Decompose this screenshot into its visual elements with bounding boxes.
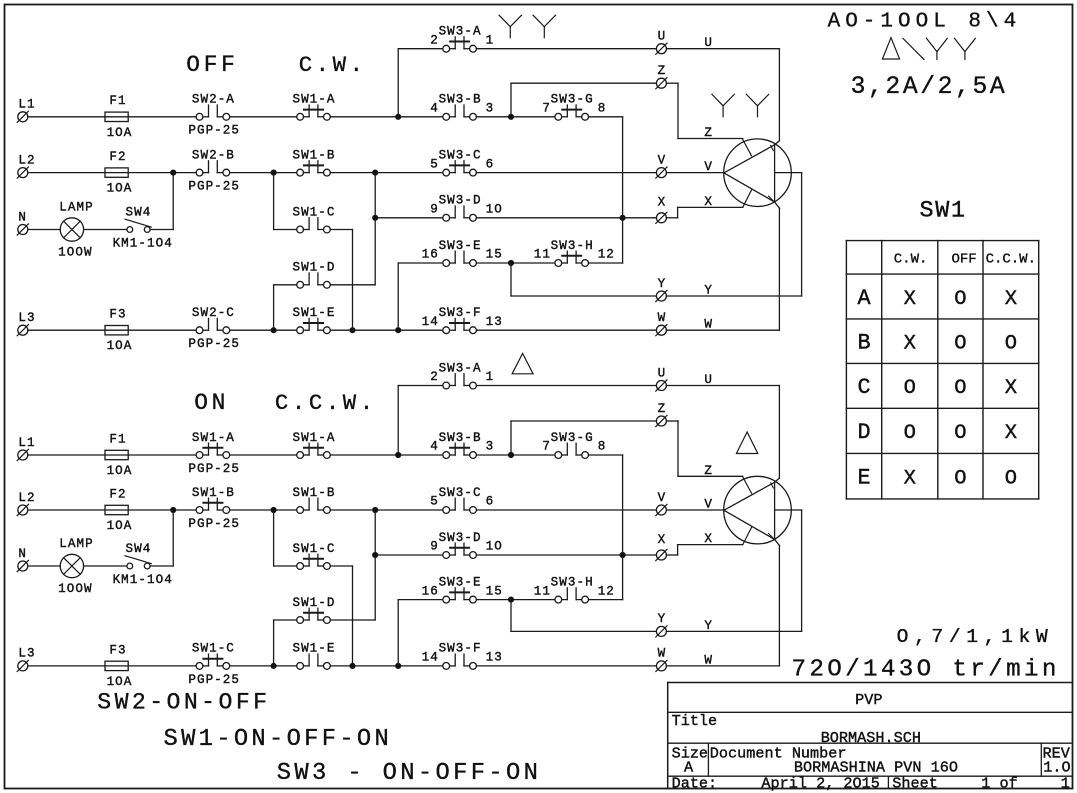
svg-text:Title: Title — [672, 712, 718, 730]
svg-text:SW1-ON-OFF-ON: SW1-ON-OFF-ON — [164, 726, 393, 753]
svg-text:PGP-25: PGP-25 — [188, 180, 240, 194]
svg-text:SW1: SW1 — [919, 198, 966, 224]
svg-text:15: 15 — [486, 248, 503, 262]
svg-text:SW1-B: SW1-B — [292, 148, 335, 162]
svg-text:X: X — [1005, 377, 1017, 400]
svg-text:V: V — [658, 153, 667, 167]
svg-text:F2: F2 — [109, 487, 126, 501]
svg-text:C.C.W.: C.C.W. — [275, 390, 377, 416]
svg-text:O: O — [954, 288, 966, 311]
svg-text:C.W.: C.W. — [299, 52, 367, 78]
svg-text:Date:: Date: — [672, 774, 718, 792]
svg-text:L1: L1 — [18, 436, 35, 450]
svg-text:F1: F1 — [109, 432, 126, 446]
svg-text:Y: Y — [658, 612, 667, 626]
svg-text:SW3-C: SW3-C — [439, 148, 482, 162]
svg-text:14: 14 — [422, 651, 439, 665]
svg-text:13: 13 — [486, 651, 503, 665]
svg-text:SW3 - ON-OFF-ON: SW3 - ON-OFF-ON — [277, 760, 541, 787]
svg-text:OFF: OFF — [186, 52, 238, 78]
svg-text:X: X — [658, 533, 667, 547]
svg-text:Z: Z — [658, 402, 667, 416]
svg-text:6: 6 — [486, 157, 495, 171]
svg-text:L2: L2 — [18, 153, 35, 167]
svg-text:L3: L3 — [18, 647, 35, 661]
svg-text:3,2A/2,5A: 3,2A/2,5A — [851, 73, 1008, 101]
svg-text:SW1-A: SW1-A — [292, 431, 335, 445]
svg-text:F2: F2 — [109, 150, 126, 164]
svg-text:72O/143O tr/min: 72O/143O tr/min — [792, 657, 1060, 684]
svg-text:SW2-A: SW2-A — [192, 93, 235, 107]
svg-text:SW4: SW4 — [125, 205, 151, 219]
svg-text:LAMP: LAMP — [59, 200, 93, 214]
svg-text:A: A — [857, 286, 871, 311]
svg-text:PGP-25: PGP-25 — [188, 124, 240, 138]
svg-text:PGP-25: PGP-25 — [188, 517, 240, 531]
svg-text:U: U — [658, 30, 667, 44]
svg-text:SW1-A: SW1-A — [292, 93, 335, 107]
svg-text:PGP-25: PGP-25 — [188, 673, 240, 687]
svg-text:SW1-B: SW1-B — [292, 486, 335, 500]
svg-text:F3: F3 — [109, 643, 126, 657]
svg-text:X: X — [1005, 288, 1017, 311]
svg-text:W: W — [658, 311, 667, 325]
svg-text:3: 3 — [486, 440, 495, 454]
svg-text:1OOW: 1OOW — [58, 245, 92, 259]
svg-text:11: 11 — [534, 584, 551, 598]
svg-text:SW3-C: SW3-C — [439, 486, 482, 500]
svg-text:SW2-ON-OFF: SW2-ON-OFF — [97, 689, 270, 715]
svg-text:8: 8 — [598, 440, 607, 454]
svg-text:F1: F1 — [109, 94, 126, 108]
svg-text:8: 8 — [598, 102, 607, 116]
svg-text:L2: L2 — [18, 491, 35, 505]
svg-text:5: 5 — [430, 157, 439, 171]
svg-text:KM1-1O4: KM1-1O4 — [113, 236, 173, 250]
svg-text:O: O — [954, 377, 966, 400]
svg-text:KM1-1O4: KM1-1O4 — [113, 573, 173, 587]
svg-text:3: 3 — [486, 102, 495, 116]
svg-text:SW2-B: SW2-B — [192, 148, 235, 162]
svg-text:U: U — [658, 366, 667, 380]
svg-text:O: O — [904, 377, 916, 400]
svg-text:1OA: 1OA — [107, 182, 133, 196]
svg-text:X: X — [1005, 422, 1017, 445]
svg-text:SW3-B: SW3-B — [439, 431, 482, 445]
svg-text:Y: Y — [658, 277, 667, 291]
svg-text:11: 11 — [534, 248, 551, 262]
svg-text:O: O — [1005, 468, 1017, 491]
svg-text:SW3-B: SW3-B — [439, 93, 482, 107]
svg-text:SW3-D: SW3-D — [439, 531, 482, 545]
svg-text:SW3-D: SW3-D — [439, 194, 482, 208]
svg-text:O,7/1,1kW: O,7/1,1kW — [897, 626, 1054, 648]
svg-text:E: E — [857, 466, 870, 491]
svg-text:SW3-A: SW3-A — [439, 25, 482, 39]
svg-text:D: D — [857, 420, 870, 445]
svg-text:1: 1 — [486, 33, 495, 47]
svg-text:X: X — [904, 333, 916, 356]
svg-text:Z: Z — [658, 64, 667, 78]
svg-text:V: V — [658, 491, 667, 505]
svg-text:O: O — [954, 422, 966, 445]
svg-text:14: 14 — [422, 315, 439, 329]
svg-text:L3: L3 — [18, 311, 35, 325]
svg-text:Sheet: Sheet — [892, 774, 938, 792]
svg-text:PGP-25: PGP-25 — [188, 462, 240, 476]
svg-text:1OA: 1OA — [107, 519, 133, 533]
svg-text:SW4: SW4 — [125, 542, 151, 556]
svg-text:SW1-C: SW1-C — [192, 642, 235, 656]
svg-text:SW2-C: SW2-C — [192, 306, 235, 320]
svg-text:N: N — [18, 547, 27, 561]
svg-text:C: C — [857, 375, 870, 400]
svg-text:OFF: OFF — [951, 251, 976, 267]
svg-text:1O: 1O — [486, 203, 503, 217]
svg-text:April 2, 2O15: April 2, 2O15 — [761, 774, 879, 792]
svg-text:15: 15 — [486, 584, 503, 598]
svg-text:1: 1 — [486, 370, 495, 384]
svg-text:L1: L1 — [18, 98, 35, 112]
svg-text:LAMP: LAMP — [59, 537, 93, 551]
svg-text:SW1-E: SW1-E — [292, 642, 335, 656]
svg-text:1OA: 1OA — [107, 675, 133, 689]
svg-text:N: N — [18, 210, 27, 224]
svg-text:SW1-C: SW1-C — [292, 205, 335, 219]
svg-text:5: 5 — [430, 495, 439, 509]
svg-text:SW3-G: SW3-G — [551, 93, 594, 107]
svg-text:1OOW: 1OOW — [58, 582, 92, 596]
svg-text:SW1-D: SW1-D — [292, 261, 335, 275]
svg-text:X: X — [658, 196, 667, 210]
svg-text:1OA: 1OA — [107, 339, 133, 353]
svg-text:2: 2 — [430, 370, 439, 384]
svg-text:SW1-B: SW1-B — [192, 486, 235, 500]
svg-text:1OA: 1OA — [107, 464, 133, 478]
svg-text:SW1-D: SW1-D — [292, 596, 335, 610]
svg-text:SW3-E: SW3-E — [439, 575, 482, 589]
svg-text:SW3-F: SW3-F — [439, 642, 482, 656]
svg-text:SW3-E: SW3-E — [439, 239, 482, 253]
svg-text:AO-1OOL 8\4: AO-1OOL 8\4 — [828, 10, 1022, 33]
svg-text:2: 2 — [430, 33, 439, 47]
svg-text:SW3-A: SW3-A — [439, 361, 482, 375]
svg-text:16: 16 — [422, 248, 439, 262]
svg-text:7: 7 — [542, 440, 551, 454]
svg-text:4: 4 — [430, 440, 439, 454]
svg-text:6: 6 — [486, 495, 495, 509]
svg-text:SW3-H: SW3-H — [551, 575, 594, 589]
svg-text:SW3-H: SW3-H — [551, 239, 594, 253]
svg-text:4: 4 — [430, 102, 439, 116]
svg-text:1 of: 1 of — [981, 774, 1017, 792]
svg-text:SW3-G: SW3-G — [551, 431, 594, 445]
svg-text:SW3-F: SW3-F — [439, 306, 482, 320]
svg-text:C.W.: C.W. — [894, 251, 928, 267]
svg-text:O: O — [954, 333, 966, 356]
svg-text:O: O — [904, 422, 916, 445]
svg-text:1: 1 — [1061, 774, 1070, 792]
svg-text:X: X — [904, 468, 916, 491]
svg-text:W: W — [658, 647, 667, 661]
svg-text:7: 7 — [542, 102, 551, 116]
svg-text:ON: ON — [194, 390, 229, 416]
svg-text:9: 9 — [430, 540, 439, 554]
svg-text:F3: F3 — [109, 308, 126, 322]
svg-text:1OA: 1OA — [107, 126, 133, 140]
svg-text:SW1-E: SW1-E — [292, 306, 335, 320]
svg-text:SW1-C: SW1-C — [292, 542, 335, 556]
svg-text:B: B — [857, 331, 870, 356]
svg-text:X: X — [904, 288, 916, 311]
svg-text:PVP: PVP — [855, 691, 882, 709]
svg-text:12: 12 — [598, 248, 615, 262]
svg-text:O: O — [954, 468, 966, 491]
svg-text:16: 16 — [422, 584, 439, 598]
svg-text:PGP-25: PGP-25 — [188, 337, 240, 351]
svg-text:C.C.W.: C.C.W. — [986, 251, 1036, 267]
svg-text:9: 9 — [430, 203, 439, 217]
svg-text:1O: 1O — [486, 540, 503, 554]
svg-text:O: O — [1005, 333, 1017, 356]
svg-text:12: 12 — [598, 584, 615, 598]
svg-text:SW1-A: SW1-A — [192, 431, 235, 445]
svg-text:13: 13 — [486, 315, 503, 329]
